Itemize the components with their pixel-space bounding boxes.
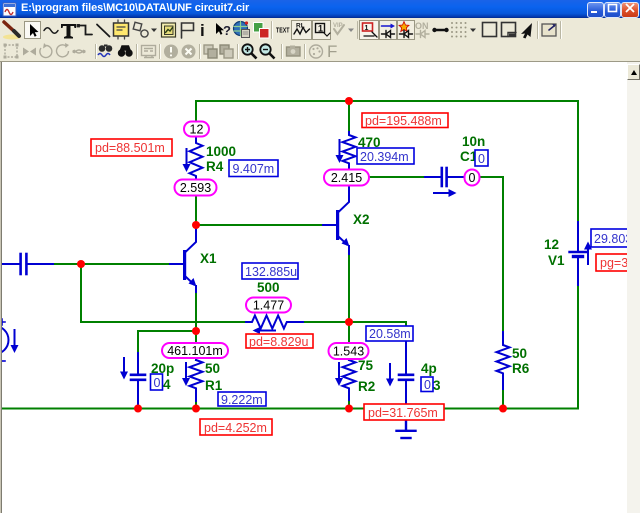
wire input cap to X1 base xyxy=(53,263,170,265)
node voltage 1.543 xyxy=(329,343,369,359)
junction node R2 ground xyxy=(345,405,353,413)
svg-text:R6: R6 xyxy=(512,361,530,376)
current label 9.407m xyxy=(229,160,278,177)
wire node through 461.101m to R1 xyxy=(195,331,197,360)
battery V1 xyxy=(570,222,593,285)
node number box C3 xyxy=(421,377,433,392)
svg-text:50: 50 xyxy=(512,346,527,361)
resistor R4 xyxy=(183,138,203,181)
label C4 name digit xyxy=(163,377,171,392)
label R6 name xyxy=(512,361,530,376)
svg-text:pg=3: pg=3 xyxy=(600,256,628,270)
svg-text:9.222m: 9.222m xyxy=(221,393,263,407)
wire R6 bottom to ground rail xyxy=(502,389,504,408)
power label pd=195.488m xyxy=(362,113,448,128)
label C1 value 10n xyxy=(462,134,485,149)
capacitor C3 xyxy=(386,341,413,420)
label C1 name xyxy=(460,149,478,164)
resistor R2 xyxy=(335,360,356,400)
label 500 value xyxy=(257,280,280,295)
label R4 name xyxy=(206,159,224,174)
resistor 470 xyxy=(336,132,356,170)
svg-text:0: 0 xyxy=(154,376,161,390)
label C4 value 20p xyxy=(151,361,174,376)
svg-text:10n: 10n xyxy=(462,134,485,149)
svg-text:R1: R1 xyxy=(205,378,223,393)
svg-text:pd=88.501m: pd=88.501m xyxy=(95,141,165,155)
svg-text:4p: 4p xyxy=(421,361,437,376)
transistor X1 xyxy=(170,228,197,292)
wire R2 bottom to ground rail xyxy=(348,400,350,408)
svg-text:2.593: 2.593 xyxy=(180,181,211,195)
current label 20.394m xyxy=(357,148,414,164)
node number box C4 xyxy=(151,374,163,390)
svg-text:V1: V1 xyxy=(548,253,565,268)
node voltage 1.477 xyxy=(246,298,291,313)
label R1 value 50 xyxy=(205,361,220,376)
wire V1 bottom to ground rail xyxy=(577,284,579,408)
junction node top rail xyxy=(345,97,353,105)
label R2 name xyxy=(358,379,375,394)
current label 9.222m xyxy=(218,392,266,407)
node voltage 12 xyxy=(184,122,209,137)
power label pd=8.829u xyxy=(246,334,313,349)
resistor R6 xyxy=(497,332,510,389)
input capacitor xyxy=(2,254,53,274)
junction node R4 bottom xyxy=(192,221,200,229)
svg-text:3: 3 xyxy=(433,378,441,393)
power label pd=4.252m xyxy=(200,419,272,435)
capacitor C1 xyxy=(425,168,464,197)
svg-text:461.101m: 461.101m xyxy=(167,344,223,358)
wire node 0 to output column xyxy=(480,177,503,332)
node voltage 0 xyxy=(465,170,480,186)
svg-text:75: 75 xyxy=(358,358,374,373)
sine source V2 xyxy=(0,319,19,361)
svg-text:20.58m: 20.58m xyxy=(369,327,411,341)
resistor R5 500 feedback xyxy=(246,316,303,335)
wire top supply rail xyxy=(196,100,578,102)
node number box C1 xyxy=(475,150,488,166)
capacitor C4 xyxy=(120,353,145,404)
svg-text:12: 12 xyxy=(544,237,559,252)
wire 500 resistor to mid node xyxy=(303,321,349,323)
svg-text:500: 500 xyxy=(257,280,280,295)
wire V+ rail to R4 top xyxy=(195,101,197,138)
svg-text:pd=8.829u: pd=8.829u xyxy=(249,335,308,349)
svg-text:0: 0 xyxy=(469,171,476,185)
current label 132.885u xyxy=(242,263,298,279)
wire V+ rail to 470 top xyxy=(348,101,350,133)
label R2 value 75 xyxy=(358,358,374,373)
svg-text:pd=31.765m: pd=31.765m xyxy=(368,406,438,420)
svg-text:132.885u: 132.885u xyxy=(245,265,297,279)
wire C4 bottom to ground rail xyxy=(137,404,139,408)
power label pd=88.501m xyxy=(91,139,172,156)
wire X2 emitter down to mid node xyxy=(348,254,350,322)
wire input node down to 500 resistor xyxy=(81,264,246,322)
ground xyxy=(397,420,416,438)
label 470 value xyxy=(358,135,381,150)
svg-text:12: 12 xyxy=(190,123,204,137)
wire bottom ground rail xyxy=(2,408,578,410)
label R6 value 50 xyxy=(512,346,527,361)
wire node 2.415 to C1 xyxy=(369,176,425,178)
svg-text:50: 50 xyxy=(205,361,220,376)
label X2 xyxy=(353,212,370,227)
svg-text:2.415: 2.415 xyxy=(331,171,362,185)
wire mid node through 1.543 to R2 xyxy=(348,322,350,360)
junction node C4 ground xyxy=(134,405,142,413)
label V1 value 12 xyxy=(544,237,559,252)
label R4 value 1000 xyxy=(206,144,236,159)
junction node input xyxy=(77,260,85,268)
node voltage 461.101m xyxy=(162,343,228,358)
wire V+ rail down to V1 xyxy=(577,101,579,223)
junction node R1 ground xyxy=(192,405,200,413)
junction node X1 emitter xyxy=(192,327,200,335)
label C3 name digit xyxy=(433,378,441,393)
wire node to C4 branch xyxy=(138,331,196,353)
svg-text:1.543: 1.543 xyxy=(333,345,364,359)
resistor R1 xyxy=(182,360,203,401)
label R1 name xyxy=(205,378,223,393)
svg-text:R2: R2 xyxy=(358,379,375,394)
wire mid node to C3 branch xyxy=(349,322,406,341)
svg-text:0: 0 xyxy=(478,152,485,166)
wire R4 bottom to node xyxy=(195,196,197,229)
label C3 value 4p xyxy=(421,361,437,376)
svg-text:X1: X1 xyxy=(200,251,217,266)
svg-text:0: 0 xyxy=(424,378,431,392)
svg-text:4: 4 xyxy=(163,377,171,392)
svg-text:20.394m: 20.394m xyxy=(360,150,409,164)
junction node X2 emitter xyxy=(345,318,353,326)
svg-text:R4: R4 xyxy=(206,159,224,174)
label X1 xyxy=(200,251,217,266)
node voltage 2.593 xyxy=(175,180,217,196)
svg-text:1.477: 1.477 xyxy=(253,299,284,313)
wire R1 bottom to ground rail xyxy=(195,401,197,408)
svg-text:X2: X2 xyxy=(353,212,370,227)
label V1 name xyxy=(548,253,565,268)
transistor X2 xyxy=(323,185,350,254)
svg-text:9.407m: 9.407m xyxy=(233,162,275,176)
wire X1 emitter down to node xyxy=(195,292,197,332)
node voltage 2.415 xyxy=(324,170,369,186)
junction node R6 ground xyxy=(499,405,507,413)
svg-text:pd=4.252m: pd=4.252m xyxy=(204,421,267,435)
wire node to X2 base xyxy=(196,224,322,226)
power label pg=3 clipped xyxy=(596,254,634,271)
current label 29.803 clipped xyxy=(591,229,635,247)
power label pd=31.765m xyxy=(364,404,444,420)
current label 20.58m xyxy=(366,326,413,341)
svg-text:pd=195.488m: pd=195.488m xyxy=(365,114,442,128)
svg-text:1000: 1000 xyxy=(206,144,236,159)
